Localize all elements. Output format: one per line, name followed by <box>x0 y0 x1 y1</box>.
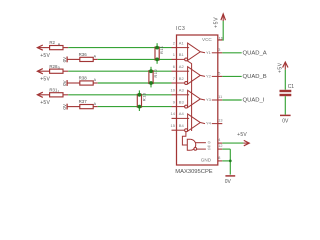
svg-text:R38: R38 <box>79 76 88 81</box>
svg-text:B2: B2 <box>179 76 185 81</box>
svg-text:+5V: +5V <box>278 62 284 73</box>
svg-text:R10: R10 <box>142 92 147 101</box>
svg-text:10: 10 <box>171 88 176 93</box>
svg-text:8: 8 <box>218 156 220 160</box>
svg-text:11: 11 <box>218 95 222 99</box>
svg-text:4: 4 <box>218 138 220 142</box>
svg-text:0: 0 <box>58 66 60 70</box>
svg-text:A1: A1 <box>179 40 185 45</box>
svg-text:GND: GND <box>201 157 212 162</box>
svg-text:B1: B1 <box>179 52 185 57</box>
svg-text:0V: 0V <box>62 79 67 86</box>
svg-text:+5V: +5V <box>40 76 50 82</box>
svg-text:Y1: Y1 <box>206 50 212 55</box>
svg-text:QUAD_A: QUAD_A <box>243 50 267 56</box>
svg-text:QUAD_I: QUAD_I <box>243 98 265 104</box>
svg-text:5: 5 <box>218 71 220 75</box>
svg-text:16: 16 <box>219 37 223 41</box>
svg-text:VCC: VCC <box>202 37 212 42</box>
svg-text:R12: R12 <box>153 68 158 77</box>
svg-text:Y4: Y4 <box>206 121 212 126</box>
svg-text:R37: R37 <box>79 99 88 104</box>
svg-text:B4: B4 <box>179 123 185 128</box>
svg-text:A4: A4 <box>179 111 185 116</box>
svg-text:A2: A2 <box>179 64 185 69</box>
svg-text:MAX3095CPE: MAX3095CPE <box>175 169 213 175</box>
svg-text:0V: 0V <box>282 119 289 125</box>
svg-text:0V: 0V <box>62 56 67 63</box>
svg-text:C1: C1 <box>288 84 295 90</box>
svg-text:+5V: +5V <box>237 132 247 138</box>
svg-text:QUAD_B: QUAD_B <box>243 74 267 80</box>
svg-text:R2: R2 <box>49 40 55 45</box>
svg-text:3: 3 <box>218 48 220 52</box>
svg-text:G: G <box>208 147 211 151</box>
svg-text:+5V: +5V <box>214 17 220 28</box>
svg-text:14: 14 <box>171 111 176 116</box>
svg-text:A3: A3 <box>179 88 185 93</box>
svg-text:R28: R28 <box>49 64 58 69</box>
svg-text:R11: R11 <box>159 45 164 54</box>
svg-text:IC3: IC3 <box>176 26 185 32</box>
svg-text:+5V: +5V <box>40 53 50 59</box>
svg-text:+5V: +5V <box>40 100 50 106</box>
svg-text:Y3: Y3 <box>206 97 212 102</box>
svg-text:R36: R36 <box>79 52 88 57</box>
svg-text:13: 13 <box>218 119 222 123</box>
svg-text:Y2: Y2 <box>206 74 212 79</box>
svg-text:G: G <box>208 141 211 145</box>
svg-text:0V: 0V <box>62 103 67 110</box>
svg-text:0V: 0V <box>225 179 232 185</box>
svg-text:R31: R31 <box>49 87 58 92</box>
svg-text:I: I <box>58 90 59 94</box>
svg-text:12: 12 <box>218 144 222 148</box>
svg-text:15: 15 <box>171 123 176 128</box>
svg-text:B3: B3 <box>179 99 185 104</box>
